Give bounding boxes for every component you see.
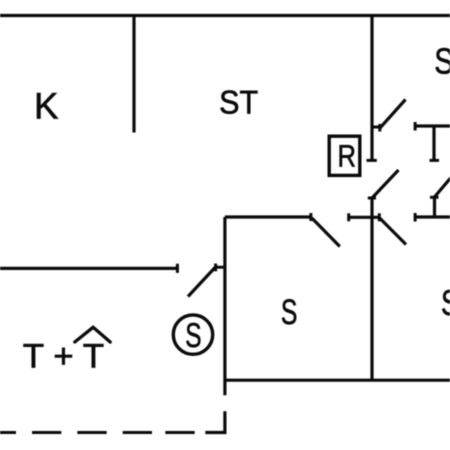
wall ST/S horizontal — [225, 215, 311, 218]
dashed boundary dash 4 — [123, 431, 152, 434]
jamb tick left wall end — [176, 264, 179, 273]
hall piece right tick — [378, 213, 381, 221]
svg-text:S: S — [434, 40, 450, 81]
wardrobe stem — [432, 126, 435, 160]
hall piece left tick — [347, 213, 350, 221]
wall K/ST divider — [132, 15, 135, 133]
jamb tick at end of upper wall — [367, 159, 377, 162]
door D1 hinge tick — [378, 124, 381, 132]
symbol box R — [329, 136, 360, 175]
dashed boundary dash 5 — [165, 431, 194, 434]
svg-text:T + T: T + T — [23, 338, 104, 376]
door D1 stub — [372, 126, 381, 129]
door D5 hinge tick — [430, 196, 439, 199]
wardrobe front line upper right — [415, 124, 450, 127]
svg-text:S: S — [281, 292, 298, 332]
door D4 leaf — [380, 218, 406, 245]
svg-text:S: S — [185, 317, 201, 355]
jamb tick D3 — [309, 213, 312, 221]
symbol circle S — [173, 315, 212, 354]
svg-text:R: R — [337, 139, 356, 174]
svg-text:K: K — [34, 86, 59, 127]
door D5 leaf — [435, 178, 450, 197]
door D3 leaf — [312, 218, 340, 247]
wall inner vertical left — [223, 217, 226, 395]
wall right room divider segment — [415, 215, 450, 218]
door D6 hinge tick — [214, 264, 217, 272]
dashed boundary dash 2 — [32, 431, 61, 434]
svg-text:ST: ST — [219, 83, 258, 120]
dashed boundary dash 3 — [77, 431, 106, 434]
hat roof over second T — [75, 327, 110, 342]
door D5 stub — [433, 198, 436, 218]
wall stub lower left corner — [205, 411, 225, 432]
wardrobe foot — [430, 159, 440, 162]
wall left horizontal — [0, 267, 179, 270]
wall main vertical upper segment — [370, 15, 373, 162]
svg-text:S: S — [441, 282, 450, 323]
door D6 stub — [216, 266, 225, 269]
dashed boundary dash 1 — [0, 431, 16, 434]
wall bottom — [224, 379, 450, 382]
wall top exterior — [0, 14, 450, 17]
door D6 leaf — [188, 268, 215, 297]
door D2 hinge tick — [368, 197, 376, 200]
door D2 leaf — [373, 170, 399, 198]
wardrobe left tick — [414, 122, 417, 131]
door D1 leaf — [380, 100, 406, 129]
wall main vertical lower segment — [370, 197, 373, 381]
wall hall piece — [349, 216, 380, 219]
divider left tick — [414, 213, 417, 222]
